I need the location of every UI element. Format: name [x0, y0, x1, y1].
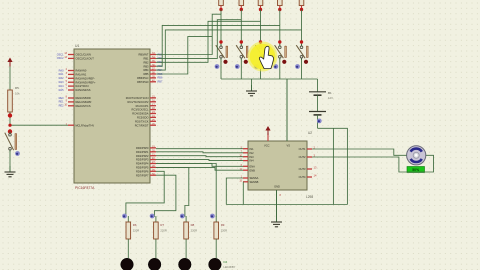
svg-text:RD2/PSP2: RD2/PSP2 [136, 154, 149, 158]
wire OUT1 to motor [312, 149, 407, 155]
svg-text:10k: 10k [15, 92, 20, 96]
push button SW2 [240, 44, 242, 46]
resistor R9 [214, 222, 219, 239]
svg-text:RD3/PSP3: RD3/PSP3 [136, 158, 149, 162]
U2 pin VCC top [267, 133, 269, 141]
svg-text:RB2: RB2 [143, 60, 149, 64]
wire RP5 to button [301, 10, 303, 45]
wire RP1 stub [220, 6, 222, 10]
wire R8 to LED [185, 239, 187, 258]
svg-text:SENSA: SENSA [250, 176, 259, 180]
resistor R6 [126, 222, 131, 239]
svg-text:RC4/SDI/SDA: RC4/SDI/SDA [132, 112, 149, 116]
svg-text:12V: 12V [328, 96, 333, 100]
probe R6 [122, 214, 127, 219]
svg-text:D4: D4 [224, 260, 228, 264]
resistor RP2 pull-up [239, 0, 244, 6]
push button SW5 [301, 44, 303, 46]
push button SW-reset [9, 132, 11, 134]
junction button 3 bottom [263, 60, 267, 64]
wire R6 to LED [127, 239, 129, 258]
probe R8 [180, 214, 185, 219]
wire RP4 stub [279, 6, 281, 10]
svg-text:VS: VS [287, 144, 291, 148]
LED D3 [179, 258, 192, 270]
resistor R5 [8, 90, 13, 112]
resistor RP3 pull-up [258, 0, 263, 6]
driver U2 L298 body [248, 141, 307, 190]
U2 pin GND bottom [276, 190, 278, 222]
svg-text:IN1: IN1 [250, 147, 255, 151]
svg-text:RC3/SCK/SCL: RC3/SCK/SCL [131, 108, 149, 112]
svg-text:RB6/PGC: RB6/PGC [137, 76, 149, 80]
junction button 1 top [219, 40, 222, 43]
svg-text:RA0: RA0 [59, 69, 64, 72]
wire R5 to node [9, 112, 11, 125]
svg-text:RD7/PSP7: RD7/PSP7 [136, 173, 149, 177]
svg-text:RD6/PSP6: RD6/PSP6 [136, 169, 149, 173]
svg-text:RA2: RA2 [59, 77, 64, 80]
wire RD0 to U2 IN1 [156, 148, 243, 150]
svg-text:B1: B1 [328, 91, 332, 95]
cursor highlight and hand [248, 42, 278, 72]
junction RP1 [219, 8, 222, 11]
svg-text:IN3: IN3 [250, 155, 255, 159]
wire R7 to LED [155, 239, 157, 258]
probe button 4 [273, 64, 278, 69]
svg-text:IN2: IN2 [250, 151, 255, 155]
svg-text:RC1/T1OSI/CCP2: RC1/T1OSI/CCP2 [127, 100, 149, 104]
svg-text:RA4/T0CKI: RA4/T0CKI [76, 84, 89, 88]
push button SW4 [279, 44, 281, 46]
junction RP2 [240, 8, 243, 11]
wire RP2 stub [240, 6, 242, 10]
wire battery down [317, 115, 319, 128]
wire RD7 to R7 [154, 175, 176, 217]
svg-text:RC6/TX/CK: RC6/TX/CK [135, 119, 149, 123]
svg-text:MCLR/Vpp/THV: MCLR/Vpp/THV [76, 123, 95, 127]
svg-text:OUT4: OUT4 [299, 175, 306, 179]
svg-text:RE1: RE1 [59, 101, 64, 104]
svg-text:VCC: VCC [264, 144, 270, 148]
wire RD6 to R6 [126, 171, 164, 216]
probe R7 [150, 214, 155, 219]
svg-text:RA2/AN2/VREF-: RA2/AN2/VREF- [76, 76, 95, 80]
svg-text:RB1: RB1 [143, 57, 149, 61]
wire button bus [221, 78, 318, 80]
svg-text:R8: R8 [191, 223, 195, 227]
svg-text:RA0/AN0: RA0/AN0 [76, 69, 87, 73]
wire RD2 to U2 IN3 [156, 156, 243, 157]
svg-text:OSC1/CLKIN: OSC1/CLKIN [76, 53, 92, 57]
svg-text:OSC1: OSC1 [57, 53, 64, 56]
svg-text:IN4: IN4 [250, 159, 255, 163]
svg-text:L298: L298 [306, 195, 313, 199]
svg-text:U2: U2 [308, 131, 312, 135]
svg-text:RC0/T1OSO/T1CKI: RC0/T1OSO/T1CKI [126, 96, 149, 100]
probe button 2 [235, 64, 240, 69]
svg-text:OUT2: OUT2 [299, 155, 306, 159]
junction button 3 top [259, 40, 262, 43]
probe reset [15, 151, 20, 156]
wire RB3 to SW4 [156, 25, 280, 66]
svg-text:RA4: RA4 [59, 85, 64, 88]
svg-text:RC2/CCP1: RC2/CCP1 [136, 104, 149, 108]
wire OUT2 to motor [312, 155, 434, 172]
svg-text:RB7: RB7 [158, 81, 163, 84]
motor rpm label [407, 167, 425, 173]
wire button 4 to bus [279, 60, 281, 79]
svg-text:SENSB: SENSB [250, 180, 259, 184]
svg-text:RD4/PSP4: RD4/PSP4 [136, 162, 149, 166]
wire button 3 to bus [260, 60, 262, 79]
ground U2 [276, 216, 278, 222]
probe battery [317, 119, 322, 124]
svg-text:220R: 220R [133, 229, 139, 233]
wire button 2 to bus [240, 60, 242, 79]
svg-text:U1: U1 [75, 44, 79, 48]
wire SENS loop [226, 178, 243, 205]
svg-text:RB3: RB3 [143, 64, 149, 68]
U2 right pins [307, 148, 312, 150]
wire battery loop [318, 128, 348, 204]
wire R8 top stub [185, 216, 187, 222]
probe button 5 [295, 64, 300, 69]
U2 pin VS top [286, 79, 288, 141]
wire R7 top stub [155, 216, 157, 222]
resistor R8 [184, 222, 189, 239]
push button SW3 [260, 44, 262, 46]
op-amp U1 PIC16F877A body [74, 49, 150, 183]
probe button 1 [215, 64, 220, 69]
svg-text:RD5/PSP5: RD5/PSP5 [136, 166, 149, 170]
wire RP4 to button [279, 10, 281, 45]
svg-text:GND: GND [274, 185, 280, 189]
wire RP2 to button [240, 10, 242, 45]
svg-text:RC7/RX/DT: RC7/RX/DT [135, 123, 149, 127]
wire button 1 to bus [220, 60, 222, 79]
U1 left pins with numbers [68, 54, 74, 56]
junction RP4 [278, 8, 281, 11]
LED D2 [148, 258, 161, 270]
probe button 3 [254, 64, 259, 69]
power arrow U2 [265, 126, 270, 131]
push button SW1 [220, 44, 222, 46]
wire button 5 to bus [301, 60, 303, 79]
junction button 2 top [240, 40, 243, 43]
ground left [9, 166, 11, 172]
wire bus to ground [251, 79, 253, 91]
svg-text:R9: R9 [221, 223, 225, 227]
svg-text:ENB: ENB [250, 168, 256, 172]
svg-text:RB5: RB5 [143, 72, 149, 76]
junction button 4 top [278, 40, 281, 43]
svg-text:RA5/AN4/SS: RA5/AN4/SS [76, 88, 91, 92]
wire RP3 stub [260, 6, 262, 10]
svg-text:OUT1: OUT1 [299, 147, 306, 151]
svg-text:RE2/AN7/CS: RE2/AN7/CS [76, 104, 91, 108]
motor [407, 146, 426, 165]
wire MCLR [10, 124, 68, 126]
LED D1 [121, 258, 134, 270]
wire RP1 to button [220, 10, 222, 45]
resistor RP1 pull-up [219, 0, 224, 6]
svg-text:220R: 220R [221, 229, 227, 233]
svg-text:RD1/PSP1: RD1/PSP1 [136, 150, 149, 154]
junction button 2 bottom [244, 60, 248, 64]
svg-text:OSC2: OSC2 [57, 57, 64, 60]
wire R9 top stub [215, 216, 217, 222]
resistor RP4 pull-up [278, 0, 283, 6]
wire RD5 to U2 ENB [156, 167, 243, 170]
junction below R5 [8, 113, 12, 117]
wire R6 top stub [127, 216, 129, 222]
svg-text:RA3: RA3 [59, 81, 64, 84]
svg-text:RA1/AN1: RA1/AN1 [76, 73, 87, 77]
wire RB4 to SW5 [156, 30, 302, 70]
junction MCLR node [8, 124, 11, 127]
wire button to ground [9, 152, 11, 172]
svg-text:RE0: RE0 [59, 97, 64, 100]
power VCC left [7, 58, 12, 63]
svg-text:RB7/PGD: RB7/PGD [137, 80, 149, 84]
svg-text:RB6: RB6 [158, 77, 163, 80]
U1 right pins with numbers [150, 54, 156, 56]
svg-text:220R: 220R [191, 229, 197, 233]
probe R9 [210, 214, 215, 219]
resistor RP5 pull-up [299, 0, 304, 6]
ground bus [251, 85, 253, 91]
svg-text:RE0/AN5/RD: RE0/AN5/RD [76, 96, 91, 100]
svg-text:RA5: RA5 [59, 89, 64, 92]
wire RD4 to U2 ENA [156, 164, 243, 167]
svg-text:RB0/INT: RB0/INT [139, 53, 149, 57]
wire to R9 [156, 164, 216, 217]
svg-text:220R: 220R [160, 229, 166, 233]
wire RP3 to button [260, 10, 262, 45]
wire RD1 to U2 IN2 [156, 152, 243, 153]
svg-text:R5: R5 [15, 86, 19, 90]
junction button 1 bottom [223, 60, 227, 64]
junction RP5 [300, 8, 303, 11]
junction RP3 [259, 8, 262, 11]
resistor R7 [154, 222, 159, 239]
battery B1 [317, 79, 319, 92]
wire RB2 to SW3 [156, 21, 261, 62]
junction button 5 top [300, 40, 303, 43]
U2 left pins [243, 148, 248, 150]
svg-text:LED-BIBY: LED-BIBY [224, 265, 236, 269]
wire RB0 to SW1 [156, 14, 221, 54]
svg-text:PIC16F877A: PIC16F877A [75, 186, 95, 190]
svg-text:RE2: RE2 [59, 105, 64, 108]
wire RB1 to SW2 [156, 20, 241, 59]
svg-text:RD0/PSP0: RD0/PSP0 [136, 146, 149, 150]
svg-text:RA1: RA1 [59, 73, 64, 76]
wire RD3 to U2 IN4 [156, 160, 243, 161]
wire to R8 [156, 167, 189, 216]
wire R9 to LED [215, 239, 217, 258]
wire RP5 stub [301, 6, 303, 10]
svg-text:R6: R6 [133, 223, 137, 227]
junction button 5 bottom [304, 60, 308, 64]
wire RB5 branch [156, 37, 212, 74]
svg-text:RB4: RB4 [143, 68, 149, 72]
svg-text:ENA: ENA [250, 164, 256, 168]
svg-text:OUT3: OUT3 [299, 167, 306, 171]
junction button 4 bottom [282, 60, 286, 64]
LED D4 [209, 258, 222, 270]
svg-text:RC5/SDO: RC5/SDO [137, 116, 149, 120]
wire vcc to R5 [9, 67, 11, 91]
svg-text:OSC2/CLKOUT: OSC2/CLKOUT [76, 57, 95, 61]
svg-text:RE1/AN6/WR: RE1/AN6/WR [76, 100, 92, 104]
svg-text:R7: R7 [160, 223, 164, 227]
svg-text:RA3/AN3/VREF+: RA3/AN3/VREF+ [76, 80, 96, 84]
